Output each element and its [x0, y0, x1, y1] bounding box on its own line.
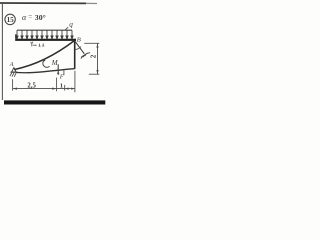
svg-text:=: = — [28, 13, 32, 21]
svg-text:30°: 30° — [35, 13, 46, 22]
svg-text:2,5: 2,5 — [27, 83, 36, 90]
svg-text:15: 15 — [7, 17, 14, 24]
svg-text:2: 2 — [90, 54, 97, 58]
svg-text:1: 1 — [60, 82, 63, 89]
svg-text:α: α — [22, 13, 27, 22]
svg-text:M: M — [51, 59, 59, 67]
svg-text:A: A — [9, 61, 14, 68]
svg-text:q: q — [69, 21, 73, 29]
svg-text:B: B — [77, 36, 81, 43]
